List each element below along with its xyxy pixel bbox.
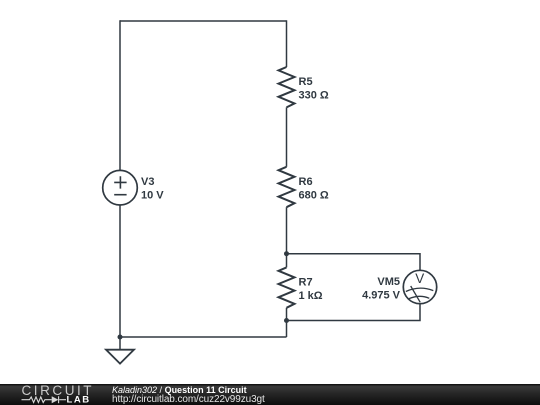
wire bottom rail	[120, 336, 287, 338]
voltmeter VM5 circle	[403, 270, 436, 303]
svg-text:VM5: VM5	[377, 276, 400, 288]
svg-text:LAB: LAB	[67, 395, 91, 405]
CircuitLab logo	[0, 384, 110, 405]
svg-text:V3: V3	[141, 176, 154, 188]
junction dot node B	[284, 318, 289, 323]
wire voltmeter branch top	[287, 254, 421, 271]
svg-text:4.975 V: 4.975 V	[362, 289, 401, 301]
wire R5 to R6	[286, 107, 288, 166]
svg-text:680 Ω: 680 Ω	[299, 189, 329, 201]
wire R6 to node A	[286, 207, 288, 254]
resistor R7	[279, 267, 295, 307]
wire node A to R7	[286, 254, 288, 268]
V3 plus sign	[114, 176, 126, 188]
voltmeter gauge upper arc	[406, 288, 434, 291]
ground stem	[119, 337, 121, 350]
junction dot node A	[284, 251, 289, 256]
svg-text:330 Ω: 330 Ω	[299, 89, 329, 101]
V3 minus sign	[114, 194, 126, 196]
voltage source V3 circle	[103, 170, 138, 205]
svg-text:V: V	[415, 271, 424, 286]
ground symbol triangle	[106, 350, 134, 364]
resistor R6	[279, 167, 295, 207]
svg-text:10 V: 10 V	[141, 189, 164, 201]
wire top rail	[120, 20, 287, 22]
wire voltmeter branch bottom	[287, 304, 421, 321]
wire node B to bottom rail	[286, 321, 288, 338]
wire right column: top to R5	[286, 20, 288, 67]
footer bar	[0, 384, 540, 405]
junction dot ground node	[118, 335, 123, 340]
voltmeter needle	[411, 286, 421, 302]
svg-text:R6: R6	[299, 176, 313, 188]
svg-text:1 kΩ: 1 kΩ	[299, 290, 323, 302]
svg-text:R5: R5	[299, 76, 313, 88]
wire left lower (V3 bottom to bottom rail)	[119, 205, 121, 337]
footer credit text	[112, 385, 265, 405]
wire left upper (top rail to V3 top)	[119, 20, 121, 170]
svg-text:R7: R7	[299, 276, 313, 288]
resistor R5	[279, 67, 295, 107]
wire R7 to node B	[286, 308, 288, 321]
voltmeter gauge lower arc	[409, 296, 430, 298]
